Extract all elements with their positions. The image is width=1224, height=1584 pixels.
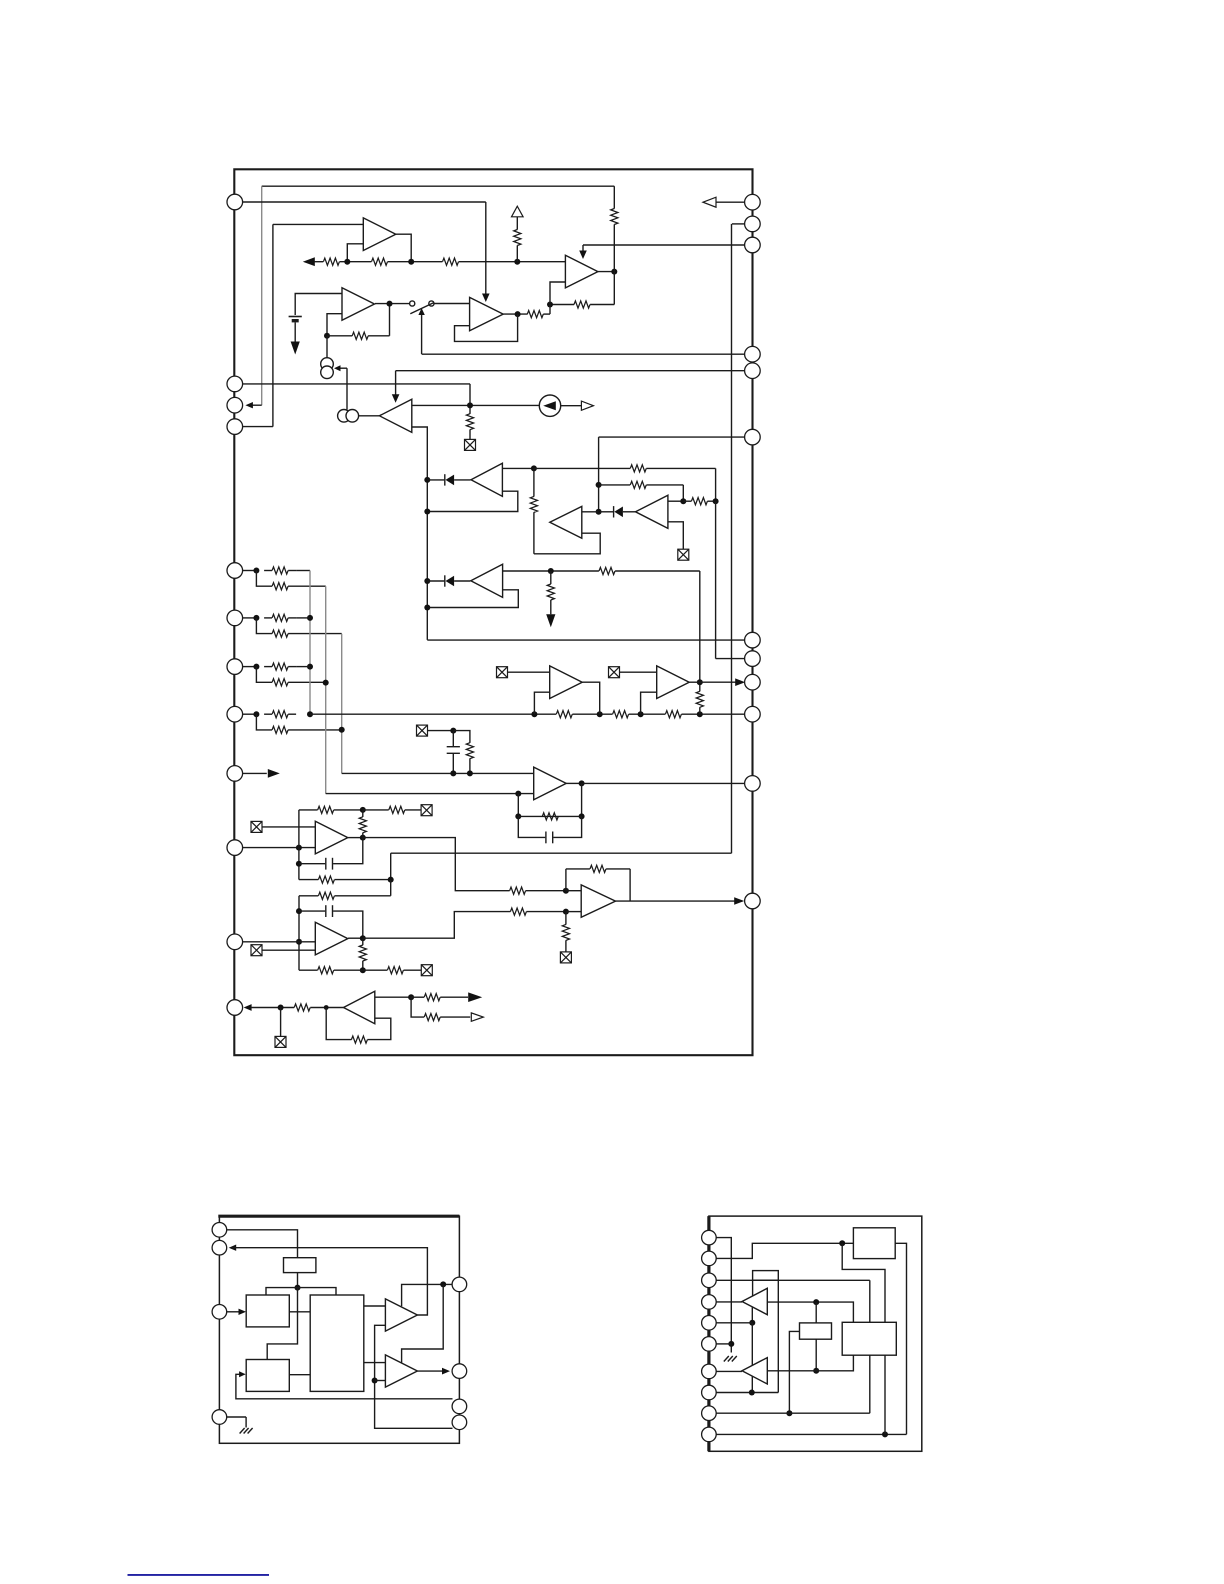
wire (288, 617, 296, 619)
node junction (360, 935, 366, 941)
wire (716, 201, 745, 203)
wire (428, 730, 454, 732)
pin (702, 1385, 717, 1400)
resistor R40 (590, 865, 606, 872)
node junction (638, 711, 644, 717)
wire (533, 512, 535, 554)
wire (334, 809, 363, 811)
wire (482, 294, 490, 303)
node junction (253, 615, 259, 621)
wire (427, 479, 444, 481)
pin (745, 237, 761, 253)
wire (411, 997, 424, 1017)
node junction (713, 498, 719, 504)
switch S1 (410, 301, 434, 314)
wire (288, 633, 342, 635)
resistor R20 (272, 663, 288, 670)
resistor R28 (466, 743, 473, 759)
wire (620, 671, 657, 673)
wire (565, 912, 567, 925)
wire (455, 314, 518, 341)
wire (298, 896, 300, 970)
hyperlink underline (128, 1574, 270, 1576)
pin (745, 632, 761, 648)
wire (572, 713, 612, 715)
wire (262, 949, 315, 951)
wire (264, 666, 272, 668)
wire (716, 658, 745, 660)
node junction (307, 664, 313, 670)
wire (469, 384, 471, 414)
resistor R29 (542, 813, 558, 820)
node junction (579, 780, 585, 786)
wire (288, 585, 326, 587)
wire (388, 261, 443, 263)
wire (526, 890, 566, 892)
wire (682, 713, 745, 715)
wire (251, 1007, 294, 1009)
node junction (424, 605, 430, 611)
pin (745, 363, 761, 379)
wire (341, 634, 343, 774)
wire (411, 996, 424, 998)
wire (404, 969, 422, 971)
ground (291, 342, 300, 355)
wire (454, 580, 470, 582)
node junction (344, 259, 350, 265)
pin (227, 659, 243, 675)
wire (334, 969, 363, 971)
wire (689, 681, 700, 683)
op-amp U4 (470, 297, 504, 330)
node junction (372, 1378, 378, 1384)
wire (262, 185, 615, 187)
wire (389, 304, 391, 336)
wire (243, 713, 257, 715)
node junction (388, 877, 394, 883)
node junction (697, 711, 703, 717)
node junction (295, 1285, 301, 1291)
wire (427, 639, 744, 641)
pin (702, 1337, 717, 1352)
wire (518, 815, 581, 817)
wire (583, 244, 745, 246)
op-amp U20 (742, 1358, 767, 1384)
node junction (408, 259, 414, 265)
capacitor C4 (326, 905, 333, 917)
terminal X2 (678, 549, 689, 560)
wire (363, 912, 511, 939)
node junction (253, 711, 259, 717)
IC3 left edge thick (707, 1216, 710, 1451)
block oscillator (284, 1258, 316, 1273)
resistor R18 (272, 614, 288, 621)
wire (668, 522, 683, 549)
resistor R8 (527, 311, 543, 318)
wire (606, 868, 630, 870)
wire (716, 1238, 731, 1353)
wire (326, 1008, 351, 1040)
node junction (296, 845, 302, 851)
wire (452, 754, 454, 774)
resistor R12 (630, 481, 646, 488)
node junction (360, 835, 366, 841)
wire (298, 810, 300, 880)
wire (682, 485, 684, 501)
wire (299, 969, 318, 971)
wire (348, 837, 363, 839)
wire (267, 1288, 297, 1360)
diode D2 (614, 506, 623, 517)
ground (240, 1428, 253, 1434)
wire (629, 869, 631, 901)
wire (646, 467, 715, 469)
wire (590, 304, 614, 306)
resistor R41 (562, 924, 569, 940)
wire (434, 303, 470, 305)
resistor R27 (696, 691, 703, 707)
wire (333, 911, 363, 938)
wire (732, 223, 745, 225)
resistor R9 (466, 414, 473, 430)
IC1 main block outline (234, 169, 752, 1055)
wire (518, 816, 545, 837)
op-amp U6 (471, 463, 502, 496)
pin (702, 1273, 717, 1288)
wire (565, 869, 567, 891)
node junction (882, 1431, 888, 1437)
wire (310, 713, 556, 715)
wire (582, 782, 745, 784)
wire (752, 1280, 754, 1295)
wire (716, 1412, 869, 1414)
terminal X1 (465, 439, 476, 450)
node junction (515, 311, 521, 317)
op-amp U12 (534, 767, 567, 800)
resistor R43 (351, 1036, 367, 1043)
terminal X8 (251, 945, 262, 956)
wire (299, 879, 318, 881)
node junction (339, 727, 345, 733)
node junction (307, 711, 313, 717)
wire (348, 937, 363, 939)
wire (227, 1230, 298, 1258)
wire (272, 224, 274, 426)
node junction (697, 679, 703, 685)
op-amp U2 (565, 255, 598, 288)
wire (566, 890, 581, 892)
diode D3 (445, 575, 454, 586)
resistor R24 (556, 711, 572, 718)
resistor R19 (272, 630, 288, 637)
resistor R4 (514, 230, 521, 246)
resistor R26 (665, 711, 681, 718)
pin (702, 1295, 717, 1310)
IC3 block outline (709, 1216, 922, 1451)
op-amp U18 (385, 1355, 417, 1387)
resistor R1 (323, 258, 339, 265)
capacitor C1 (447, 747, 460, 754)
wire (392, 394, 400, 403)
node junction (450, 770, 456, 776)
resistor R10 (630, 465, 646, 472)
node junction (408, 994, 414, 1000)
wire (402, 1284, 452, 1306)
wire (296, 666, 310, 668)
wire (646, 484, 683, 486)
resistor R38 (387, 967, 403, 974)
node arrow (334, 365, 341, 371)
node open arrow (581, 401, 593, 410)
node junction (563, 888, 569, 894)
wire (716, 1243, 853, 1258)
current source Q3 (539, 395, 560, 416)
block divider2 (246, 1360, 289, 1392)
op-amp U11 (657, 666, 690, 699)
block REF (800, 1323, 832, 1339)
IC2 top edge thick (218, 1215, 459, 1218)
wire (412, 427, 428, 640)
wire (534, 692, 549, 714)
node arrow out left (303, 257, 315, 266)
wire (299, 910, 325, 912)
resistor R45 (424, 1014, 440, 1021)
wire (440, 1016, 470, 1018)
wire (613, 186, 615, 208)
wire (299, 895, 318, 897)
node junction (728, 1341, 734, 1347)
node arrow (239, 1371, 246, 1377)
block ALC (853, 1228, 895, 1259)
pin (702, 1230, 717, 1245)
node junction (596, 509, 602, 515)
wire (402, 1284, 444, 1362)
wire (699, 707, 701, 714)
wire (699, 571, 701, 682)
wire (346, 368, 348, 409)
resistor R33 (510, 887, 526, 894)
wire (503, 313, 527, 315)
wire (243, 617, 257, 619)
wire (243, 772, 267, 774)
wire (232, 1248, 427, 1315)
node junction (547, 302, 553, 308)
wire (716, 1370, 742, 1372)
pin (745, 216, 761, 232)
wire (364, 1362, 386, 1364)
resistor R46 (753, 1271, 779, 1281)
op-amp U16 (344, 991, 375, 1023)
node junction (596, 482, 602, 488)
pin (227, 840, 243, 856)
terminal X4 (609, 667, 620, 678)
wire (751, 1323, 753, 1366)
resistor R17 (272, 583, 288, 590)
wire (375, 996, 411, 998)
node junction (514, 259, 520, 265)
wire (641, 692, 657, 714)
node junction (323, 680, 329, 686)
node junction (360, 967, 366, 973)
pin (227, 706, 243, 722)
wire (227, 1416, 246, 1418)
op-amp U14 (315, 922, 348, 955)
node junction (324, 333, 330, 339)
wire (299, 809, 318, 811)
resistor R5 (611, 209, 618, 225)
node junction (786, 1410, 792, 1416)
wire (288, 570, 296, 572)
wire (227, 1311, 239, 1313)
capacitor C3 (326, 858, 333, 870)
resistor R31 (389, 806, 405, 813)
resistor R14 (599, 567, 615, 574)
node junction (424, 578, 430, 584)
pin (702, 1364, 717, 1379)
pin (702, 1406, 717, 1421)
wire (469, 758, 471, 773)
wire (533, 468, 535, 496)
wire (280, 1008, 282, 1037)
battery BT1 (289, 317, 302, 321)
wire (391, 852, 732, 854)
wire (342, 772, 534, 774)
wire (469, 430, 471, 440)
wire (459, 261, 566, 263)
op-amp U3 (342, 288, 375, 321)
wire (716, 1301, 742, 1303)
block DET (842, 1322, 896, 1355)
wire (363, 809, 389, 811)
op-amp U15 (581, 885, 615, 917)
node junction (548, 568, 554, 574)
resistor R3 (443, 258, 459, 265)
wire (252, 404, 261, 406)
wire (716, 1343, 731, 1345)
wire (629, 713, 666, 715)
wire (550, 304, 574, 306)
wire (534, 533, 600, 554)
node junction (839, 1240, 845, 1246)
node junction (296, 908, 302, 914)
wire (599, 484, 631, 486)
node junction (296, 939, 302, 945)
IC2 block outline (219, 1216, 459, 1443)
node junction (597, 711, 603, 717)
pin (212, 1240, 227, 1255)
wire (699, 682, 701, 691)
node junction (813, 1299, 819, 1305)
wire (869, 1280, 871, 1322)
wire (789, 1331, 799, 1413)
wire (362, 833, 364, 838)
wire (288, 681, 326, 683)
wire (243, 570, 257, 572)
wire (395, 234, 412, 262)
wire (256, 667, 272, 683)
wire (362, 938, 364, 945)
wire (243, 847, 316, 849)
op-amp U10 (550, 666, 583, 699)
current source Q1 (321, 358, 334, 379)
resistor R7 (352, 332, 368, 339)
wire (815, 1302, 817, 1323)
wire (295, 294, 342, 316)
wire (417, 1370, 446, 1372)
terminal X11 (275, 1036, 286, 1047)
wire (359, 415, 380, 417)
node arrow output (244, 1004, 252, 1011)
wire (516, 245, 518, 261)
wire (288, 666, 296, 668)
wire (405, 809, 421, 811)
wire (256, 618, 272, 634)
wire (261, 186, 263, 405)
wire (243, 426, 273, 428)
wire (715, 468, 717, 501)
wire (421, 313, 423, 355)
wire (297, 1273, 299, 1288)
pin (212, 1305, 227, 1320)
node arrow into pin 3 (245, 402, 253, 408)
wire (751, 1307, 753, 1323)
wire (884, 1355, 886, 1434)
pin (745, 651, 761, 667)
terminal X7 (421, 805, 432, 816)
pin (702, 1427, 717, 1442)
block logic (310, 1295, 364, 1391)
wire (869, 1355, 871, 1413)
wire (716, 1279, 869, 1281)
node junction (579, 813, 585, 819)
resistor R25 (613, 711, 629, 718)
wire (375, 303, 410, 305)
node junction (467, 770, 473, 776)
wire (581, 783, 583, 816)
terminal X6 (251, 821, 262, 832)
resistor R11 (530, 496, 537, 512)
node junction (749, 1390, 755, 1396)
wire (336, 367, 347, 369)
wire (553, 816, 581, 837)
wire (325, 586, 327, 793)
resistor R23 (272, 726, 288, 733)
wire (326, 793, 534, 795)
node junction (515, 813, 521, 819)
wire (454, 479, 471, 481)
pin (745, 674, 761, 690)
node junction (253, 664, 259, 670)
wire (452, 731, 454, 747)
wire (565, 940, 567, 952)
wire (362, 961, 364, 970)
wire (296, 570, 310, 572)
resistor R44 (424, 994, 440, 1001)
wire (600, 511, 613, 513)
wire (534, 467, 630, 469)
power VCC arrow (512, 206, 524, 217)
wire (363, 838, 510, 891)
pin (227, 194, 243, 210)
wire (582, 682, 600, 714)
pin (227, 1000, 243, 1016)
pin (452, 1364, 467, 1379)
pin (227, 376, 243, 392)
wire (566, 911, 581, 913)
pin (745, 429, 761, 445)
wire (363, 969, 388, 971)
node junction (813, 1368, 819, 1374)
